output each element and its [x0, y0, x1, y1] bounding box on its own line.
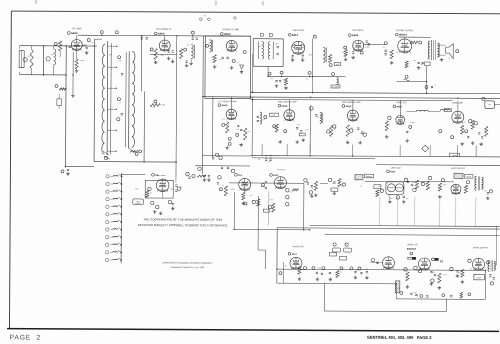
svg-text:RECEIVER MAKES IT POSSIBLE TO: RECEIVER MAKES IT POSSIBLE TO BRING YOU …	[138, 223, 228, 228]
svg-text:150: 150	[316, 116, 319, 118]
svg-text:150: 150	[469, 268, 472, 270]
svg-text:.01: .01	[149, 50, 151, 52]
svg-text:470: 470	[222, 119, 225, 121]
svg-text:C: C	[435, 84, 437, 86]
svg-text:47K: 47K	[259, 46, 262, 48]
svg-text:150: 150	[219, 59, 222, 61]
svg-text:100K: 100K	[317, 267, 321, 269]
svg-text:.003: .003	[413, 60, 416, 62]
svg-text:6AG5: 6AG5	[71, 32, 78, 35]
svg-text:6AG7: 6AG7	[273, 174, 279, 177]
svg-text:SENTINEL 401, 402, 406 PAGE: SENTINEL 401, 402, 406 PAGE 2	[367, 335, 432, 340]
svg-text:220K: 220K	[309, 54, 313, 56]
svg-text:10K: 10K	[180, 187, 183, 189]
svg-text:220K: 220K	[109, 54, 113, 56]
svg-text:.003: .003	[390, 198, 393, 200]
svg-text:.01: .01	[388, 124, 390, 126]
svg-text:HORIZ OUTPUT: HORIZ OUTPUT	[473, 247, 489, 249]
svg-text:220K: 220K	[378, 186, 382, 188]
svg-text:6AU6: 6AU6	[224, 33, 231, 36]
svg-text:470: 470	[250, 195, 253, 197]
svg-text:27K: 27K	[236, 129, 239, 131]
svg-text:6C4: 6C4	[238, 174, 243, 177]
svg-text:6AV6: 6AV6	[352, 34, 359, 37]
svg-text:150: 150	[262, 119, 265, 121]
svg-text:VERT OUTPUT: VERT OUTPUT	[451, 168, 466, 170]
svg-text:RATIO DET: RATIO DET	[293, 29, 305, 32]
svg-text:47K: 47K	[297, 124, 300, 126]
svg-text:VERT OSC: VERT OSC	[391, 168, 402, 170]
svg-text:.003: .003	[484, 130, 487, 132]
svg-text:27K: 27K	[443, 274, 446, 276]
svg-text:1 MEG: 1 MEG	[160, 54, 166, 56]
svg-text:5%: 5%	[489, 276, 492, 278]
svg-text:220K: 220K	[355, 270, 359, 272]
svg-text:27K: 27K	[470, 125, 473, 127]
svg-text:VIDEO DET: VIDEO DET	[396, 102, 408, 104]
svg-text:47K: 47K	[268, 161, 271, 163]
svg-text:1 MEG: 1 MEG	[230, 189, 236, 191]
svg-text:47K: 47K	[332, 182, 335, 184]
svg-text:.003: .003	[246, 131, 249, 133]
svg-text:100K: 100K	[135, 188, 139, 190]
svg-text:HORIZ OSC: HORIZ OSC	[407, 244, 419, 246]
svg-text:.003: .003	[211, 57, 214, 59]
svg-text:.01: .01	[342, 52, 344, 54]
svg-text:1ST VIDEO I.F. AMP: 1ST VIDEO I.F. AMP	[218, 100, 237, 103]
svg-text:2ND VIDEO I.F. AMP: 2ND VIDEO I.F. AMP	[278, 100, 297, 103]
svg-text:.01: .01	[403, 270, 405, 272]
svg-text:5%: 5%	[284, 265, 287, 267]
svg-text:150: 150	[290, 191, 293, 193]
svg-text:6SN7: 6SN7	[390, 171, 396, 173]
svg-text:3RD VIDEO I.F. AMP: 3RD VIDEO I.F. AMP	[342, 101, 361, 104]
svg-text:.01: .01	[222, 185, 224, 187]
svg-text:6AU6: 6AU6	[158, 32, 165, 35]
svg-text:6BG6: 6BG6	[477, 277, 481, 279]
svg-text:.05: .05	[360, 186, 362, 188]
svg-text:.01: .01	[425, 184, 427, 186]
svg-text:VOL: VOL	[336, 64, 339, 66]
svg-text:47K: 47K	[162, 104, 166, 106]
svg-text:.003: .003	[457, 272, 460, 274]
svg-text:100K: 100K	[413, 292, 417, 294]
svg-text:100K: 100K	[283, 79, 287, 81]
svg-text:TUNING: TUNING	[135, 203, 140, 205]
svg-text:6AL5: 6AL5	[292, 253, 298, 256]
svg-text:470: 470	[462, 122, 465, 124]
svg-text:27K: 27K	[396, 52, 399, 54]
svg-text:1ST AUDIO: 1ST AUDIO	[352, 29, 364, 32]
svg-text:.05: .05	[339, 272, 341, 274]
svg-text:5%: 5%	[237, 62, 240, 64]
svg-text:27K: 27K	[484, 190, 487, 192]
svg-text:220K: 220K	[350, 128, 354, 130]
svg-text:100K: 100K	[51, 54, 55, 56]
svg-text:HEIGHT: HEIGHT	[366, 176, 372, 178]
svg-text:6AG5: 6AG5	[282, 105, 289, 108]
svg-text:PIX: PIX	[488, 104, 490, 106]
svg-text:5%: 5%	[449, 58, 452, 60]
svg-text:10K: 10K	[328, 56, 331, 58]
svg-text:150: 150	[421, 64, 424, 66]
svg-text:220K: 220K	[170, 189, 174, 191]
svg-text:PAGE 2: PAGE 2	[10, 334, 42, 341]
svg-text:10K: 10K	[91, 42, 94, 44]
svg-text:6AL5: 6AL5	[397, 105, 403, 108]
svg-text:150: 150	[406, 198, 409, 200]
svg-text:.003: .003	[270, 199, 273, 201]
svg-text:47K: 47K	[397, 288, 400, 290]
svg-text:47K: 47K	[28, 56, 31, 58]
svg-text:.05: .05	[291, 57, 293, 59]
svg-text:SYNC SEP: SYNC SEP	[277, 169, 285, 171]
svg-text:SOUND OUTPUT: SOUND OUTPUT	[396, 30, 414, 32]
svg-text:©Howard W. Sams & Co., Inc. 19: ©Howard W. Sams & Co., Inc. 1948	[171, 266, 205, 269]
svg-text:.05: .05	[334, 128, 336, 130]
svg-text:10K: 10K	[119, 60, 122, 62]
svg-text:470: 470	[187, 45, 190, 47]
svg-text:27K: 27K	[262, 185, 265, 187]
svg-text:100K: 100K	[305, 129, 309, 131]
svg-text:PHASE DET: PHASE DET	[293, 245, 305, 248]
svg-text:.05: .05	[58, 42, 60, 44]
svg-text:.01: .01	[118, 102, 120, 104]
svg-text:470: 470	[432, 272, 435, 274]
svg-text:470: 470	[466, 186, 469, 188]
svg-text:6SN7GT: 6SN7GT	[407, 248, 417, 251]
svg-text:WIDTH: WIDTH	[466, 176, 471, 178]
svg-text:100K: 100K	[275, 43, 279, 45]
svg-text:1 MEG: 1 MEG	[442, 184, 448, 186]
svg-text:220K: 220K	[81, 60, 85, 62]
svg-text:THE COOPERATION OF THE MANUFAC: THE COOPERATION OF THE MANUFACTURER OF T…	[143, 217, 222, 221]
svg-text:B+: B+	[204, 15, 206, 17]
svg-text:100K: 100K	[340, 186, 344, 188]
svg-text:1ST SOUND I.F.: 1ST SOUND I.F.	[156, 29, 172, 31]
svg-text:470: 470	[383, 47, 386, 49]
svg-text:47K: 47K	[301, 269, 304, 271]
svg-text:1 MEG: 1 MEG	[365, 47, 371, 49]
svg-text:SOUND I.F. AMP: SOUND I.F. AMP	[222, 28, 239, 31]
svg-text:6AL5: 6AL5	[292, 34, 299, 37]
svg-text:1 MEG: 1 MEG	[150, 106, 156, 108]
svg-text:1 MEG: 1 MEG	[410, 122, 416, 124]
svg-text:R.F. AMP: R.F. AMP	[72, 27, 82, 30]
svg-text:10K: 10K	[365, 269, 368, 271]
svg-text:6AG5: 6AG5	[222, 104, 229, 107]
svg-text:6K6GT: 6K6GT	[399, 34, 408, 37]
svg-text:1 MEG: 1 MEG	[415, 270, 421, 272]
svg-text:27K: 27K	[179, 51, 182, 53]
svg-text:10K: 10K	[412, 182, 415, 184]
svg-text:47K: 47K	[271, 78, 274, 80]
svg-text:5%: 5%	[258, 159, 261, 161]
svg-text:10K: 10K	[360, 133, 363, 135]
svg-text:A PHOTOFACT STANDARD NOTATION: A PHOTOFACT STANDARD NOTATION SCHEMATIC	[162, 261, 213, 264]
svg-text:6AG5: 6AG5	[346, 105, 353, 108]
svg-text:.05: .05	[306, 78, 308, 80]
svg-text:.05: .05	[150, 192, 152, 194]
svg-text:4.5 TRAP: 4.5 TRAP	[332, 85, 339, 88]
